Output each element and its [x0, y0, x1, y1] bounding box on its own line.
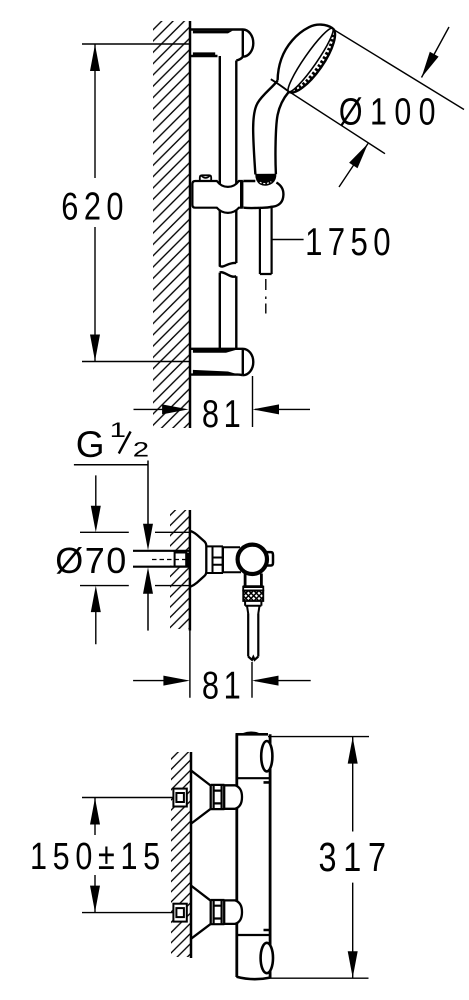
dim Ø70 line + arrows	[95, 475, 97, 644]
hand shower neck line	[271, 79, 289, 91]
dim Ø100 extension lines	[291, 30, 465, 154]
svg-text:620: 620	[61, 185, 129, 228]
wall line fig1	[189, 21, 192, 428]
svg-text:Ø100: Ø100	[339, 92, 443, 134]
dim 81 fig1 extension line right	[252, 376, 254, 427]
top bracket arm	[190, 30, 236, 57]
bottom union nose	[224, 900, 242, 924]
ball plug fig2	[267, 552, 274, 565]
dim 81 fig2 extension lines	[190, 631, 252, 698]
dim 81 fig1 arrows	[134, 408, 311, 410]
hand shower hose nut (black cap)	[255, 174, 276, 186]
hand shower spray face	[283, 25, 343, 99]
dim 317 arrowheads	[348, 737, 358, 978]
G 1/2 leader line	[74, 461, 148, 529]
svg-text:81: 81	[202, 664, 246, 707]
dim 317 line	[352, 737, 354, 979]
union nut fig2	[206, 546, 223, 573]
dim 620 extension lines	[82, 44, 190, 362]
svg-text:317: 317	[319, 835, 393, 880]
dim 150 arrowheads	[90, 798, 100, 912]
G1/2 nipple pipe	[133, 552, 189, 566]
top bracket cap	[236, 30, 253, 61]
hose centerline dash-dot	[265, 279, 267, 314]
top union nut	[211, 785, 225, 809]
dim Ø100 arrow upper	[422, 27, 450, 78]
ball joint fig2	[238, 545, 267, 574]
body ticks	[264, 782, 270, 930]
wall hatch fig3	[171, 752, 191, 957]
dim 620 arrowheads	[90, 45, 100, 362]
knurled nut fig2	[243, 587, 263, 591]
thermostat body	[237, 734, 270, 977]
hand shower handle	[253, 81, 277, 175]
dim Ø100 arrow lower	[339, 144, 368, 188]
rail tube right edge	[220, 61, 237, 349]
rail tube left edge	[220, 56, 237, 349]
dim Ø70 extension lines	[80, 532, 190, 585]
slider dark right edge	[240, 181, 243, 208]
bottom bracket cap	[236, 349, 253, 375]
bottom bracket arm	[190, 349, 239, 375]
top union escutcheon	[191, 771, 210, 824]
svg-text:Ø70: Ø70	[55, 540, 128, 581]
svg-text:81: 81	[202, 393, 246, 436]
svg-text:1: 1	[110, 419, 126, 442]
union body cylinder fig2	[223, 546, 241, 573]
bottom union nut	[211, 900, 225, 924]
slider body on rail	[192, 181, 241, 213]
bottom bracket shading	[193, 350, 238, 374]
svg-text:1750: 1750	[305, 221, 396, 264]
dim 317 extension lines	[268, 737, 369, 979]
hand shower head back outline	[278, 25, 333, 81]
dim 150 extension lines	[82, 798, 173, 913]
bottom union square	[173, 904, 186, 922]
dim 1750 leader	[273, 239, 304, 241]
svg-text:2: 2	[133, 438, 149, 461]
G 1/2 arrow lower	[147, 589, 149, 631]
hose from holder	[260, 206, 272, 274]
svg-text:150±15: 150±15	[30, 836, 166, 878]
top union nose	[224, 785, 242, 809]
top union square	[173, 789, 186, 807]
dim 150 line	[94, 798, 96, 913]
hose coupling fig2	[245, 601, 261, 614]
wall hatch fig1	[153, 21, 190, 428]
hose fig2	[248, 614, 258, 660]
bottom union escutcheon	[191, 886, 210, 939]
bottom knob ellipse	[261, 943, 273, 973]
top bracket shading	[193, 31, 233, 55]
body separator lines	[237, 778, 270, 935]
svg-text:G: G	[76, 424, 105, 465]
dim 620 line	[94, 44, 96, 362]
top knob ellipse	[261, 741, 272, 771]
outlet neck fig2	[243, 574, 263, 587]
wall hatch fig2	[170, 510, 190, 629]
dim 81 fig2 arrows	[133, 680, 311, 682]
escutcheon cone fig2	[190, 531, 206, 587]
wall line fig3	[190, 752, 193, 958]
G 1/2 arrow upper	[143, 524, 153, 551]
wall line fig2	[189, 510, 192, 631]
nipple square nut	[175, 553, 187, 567]
slider tab	[200, 175, 211, 181]
shower holder lump	[243, 181, 283, 208]
